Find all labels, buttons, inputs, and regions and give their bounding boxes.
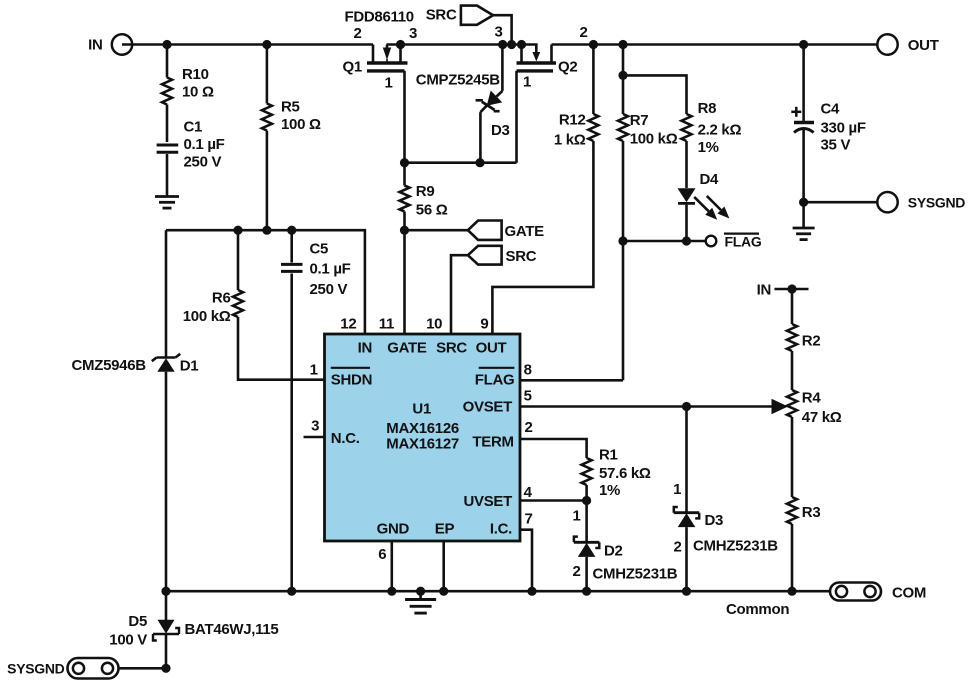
wire R7 to R8 [623, 75, 687, 114]
wire R10 to C1 [166, 105, 169, 143]
wire C1 to ground [166, 154, 169, 197]
svg-text:8: 8 [524, 362, 532, 379]
label C4 [821, 101, 866, 154]
resistor R1 [582, 458, 592, 485]
svg-text:6: 6 [378, 546, 386, 563]
wire IN stub [775, 288, 809, 291]
tag SRC mid [468, 246, 502, 265]
label D3 CMHZ5231B [693, 538, 778, 555]
label D3 pin 1 [673, 481, 681, 498]
svg-text:2: 2 [579, 24, 587, 41]
svg-text:D2: D2 [604, 543, 623, 560]
wire R6 top lead [237, 230, 240, 290]
wire C4 ground stem [802, 202, 805, 228]
resistor R3 [787, 497, 797, 524]
node junction dots bottom rail [161, 587, 796, 596]
label Common [726, 601, 789, 618]
diode D2 zener [574, 537, 599, 557]
node FLAG open circle [706, 236, 717, 247]
wire UVSET [520, 499, 587, 502]
node junction dot SYSGND [161, 664, 170, 673]
svg-text:330 µF: 330 µF [821, 120, 866, 137]
svg-text:D5: D5 [128, 613, 147, 630]
svg-text:C1: C1 [184, 119, 203, 136]
svg-text:R9: R9 [416, 183, 435, 200]
label U1 pin 6 [378, 546, 386, 563]
label U1 pin 8 [524, 362, 532, 379]
svg-text:CMPZ5245B: CMPZ5245B [416, 72, 500, 89]
label FLAG node [724, 234, 762, 250]
svg-text:R6: R6 [212, 290, 231, 307]
svg-text:2: 2 [572, 563, 580, 580]
svg-text:CMHZ5231B: CMHZ5231B [693, 538, 778, 555]
diode D1 zener [152, 354, 180, 372]
label C1 [184, 119, 225, 171]
svg-text:10 Ω: 10 Ω [182, 84, 214, 101]
wire GATE tag lead [405, 229, 468, 232]
node junction dot FLAG left [618, 236, 627, 245]
label R4 [802, 390, 842, 427]
label FDD86110 [345, 9, 414, 26]
svg-text:SHDN: SHDN [331, 372, 372, 389]
diode D5 schottky [153, 620, 179, 641]
label Q2 [558, 59, 577, 76]
svg-text:3: 3 [311, 418, 319, 435]
node junction dot R10 [162, 40, 171, 49]
label D2 [604, 543, 623, 560]
svg-text:2: 2 [524, 419, 532, 436]
resistor R12 [588, 114, 598, 141]
wire Q1 gate down [403, 71, 406, 163]
wire D5 bottom lead [165, 634, 168, 668]
svg-text:BAT46WJ,115: BAT46WJ,115 [185, 621, 279, 638]
label pin 3 Q2 [494, 24, 502, 41]
wire R7 top lead [622, 45, 625, 115]
svg-text:GATE: GATE [387, 340, 427, 357]
svg-text:2: 2 [353, 25, 361, 42]
label R1 [599, 447, 651, 500]
label U1 top pin names [358, 340, 507, 357]
label R12 [554, 112, 586, 149]
svg-text:D4: D4 [700, 171, 720, 188]
svg-text:0.1 µF: 0.1 µF [310, 261, 351, 278]
svg-text:11: 11 [379, 316, 394, 333]
wire Q2 gate down [515, 71, 518, 163]
wire D1 top lead [165, 230, 168, 357]
resistor R4 potentiometer [787, 390, 797, 417]
svg-text:IN: IN [358, 340, 372, 357]
label R6 [183, 290, 231, 326]
node junction dot D3 bottom [475, 158, 484, 167]
wire C4 to SYSGND [804, 201, 888, 204]
label D1 [180, 358, 199, 375]
node junction dot C4 top [799, 40, 808, 49]
tag SRC top [461, 6, 493, 25]
svg-text:FLAG: FLAG [725, 234, 762, 250]
wire R10 top lead [166, 45, 169, 78]
svg-text:1: 1 [523, 74, 531, 91]
wire D3 bottom lead [685, 527, 688, 591]
svg-text:CMZ5946B: CMZ5946B [72, 357, 147, 374]
resistor R8 [682, 114, 692, 141]
label U1 UVSET [463, 493, 512, 510]
node junction dots Q2 source [498, 40, 526, 49]
wire R4 wiper arrow [772, 399, 789, 415]
label U1 pin 5 [524, 388, 532, 405]
label C5 [310, 241, 351, 299]
wire D5 top lead [165, 591, 168, 620]
tag GATE [468, 221, 502, 240]
svg-text:SRC: SRC [436, 340, 467, 357]
wire U1 GND pin 6 [390, 541, 393, 591]
label R8 [698, 100, 742, 156]
ground bottom [405, 600, 436, 614]
resistor R9 [400, 186, 410, 212]
label IN right [757, 282, 771, 299]
svg-text:D3: D3 [491, 122, 510, 139]
wire SYSGND connector lead [119, 667, 167, 670]
wire R5 top lead [266, 45, 269, 104]
svg-text:0.1 µF: 0.1 µF [184, 136, 225, 153]
svg-text:Q1: Q1 [343, 59, 362, 76]
label R9 [416, 183, 448, 219]
svg-text:SYSGND: SYSGND [7, 661, 65, 677]
svg-text:R5: R5 [281, 99, 300, 116]
wire D3 top lead [685, 407, 688, 513]
label SRC top [426, 7, 457, 24]
svg-text:SRC: SRC [426, 7, 457, 24]
svg-text:2.2 kΩ: 2.2 kΩ [698, 122, 742, 139]
resistor R10 [162, 78, 172, 105]
node junction dot IN stub [787, 284, 796, 293]
svg-text:100 V: 100 V [109, 632, 147, 649]
label D2 pin 1 [572, 508, 580, 525]
label U1 TERM [472, 434, 513, 451]
svg-text:COM: COM [892, 585, 926, 602]
label U1 name [386, 401, 459, 453]
svg-text:IN: IN [88, 37, 102, 54]
node junction dot gate bus left [400, 158, 409, 167]
svg-text:C4: C4 [821, 101, 841, 118]
svg-text:R1: R1 [599, 447, 618, 464]
wire R3 bottom lead [791, 524, 794, 591]
resistor R2 [787, 324, 797, 351]
node junction dot GATE [400, 226, 409, 235]
node junction dot R7 [618, 40, 627, 49]
svg-text:IN: IN [757, 282, 771, 299]
wire C4 top lead [802, 45, 805, 121]
svg-text:35 V: 35 V [821, 137, 851, 154]
label COM [892, 585, 926, 602]
svg-text:57.6 kΩ: 57.6 kΩ [599, 465, 651, 482]
svg-text:MAX16126: MAX16126 [386, 420, 459, 437]
wire SRC tag to rail [493, 15, 512, 44]
svg-text:SYSGND: SYSGND [908, 195, 966, 211]
wire top rail Q2 drain to OUT [552, 43, 888, 46]
wire bottom rail [166, 590, 830, 593]
label U1 pin 2 [524, 419, 532, 436]
svg-text:250 V: 250 V [184, 154, 222, 171]
svg-text:GND: GND [377, 521, 410, 538]
label CMPZ5245B [416, 72, 500, 89]
label D3 top [491, 122, 510, 139]
svg-text:100 kΩ: 100 kΩ [630, 131, 678, 148]
node junction dot C5 top [287, 226, 296, 235]
svg-text:OUT: OUT [476, 340, 507, 357]
connector COM [830, 583, 881, 601]
wire R2 to R4 [791, 351, 794, 390]
svg-text:U1: U1 [412, 401, 431, 418]
diode D3 zener [476, 45, 503, 163]
wire top rail Q1 source to Q2 source [387, 43, 538, 46]
svg-text:FLAG: FLAG [475, 372, 515, 389]
label BAT46WJ115 [185, 621, 279, 638]
node junction dot R5 [262, 40, 271, 49]
svg-text:1%: 1% [698, 139, 719, 156]
svg-text:56 Ω: 56 Ω [416, 202, 448, 219]
wire R4 to R3 [791, 417, 794, 497]
svg-text:R12: R12 [559, 112, 586, 129]
wire R6 to SHDN [238, 317, 325, 380]
wire TERM to R1 [520, 439, 587, 458]
label U1 pin 1 [310, 362, 318, 379]
label C4 plus [791, 107, 801, 117]
svg-text:3: 3 [494, 24, 502, 41]
node junction dot Q1 source [396, 40, 405, 49]
label D4 [700, 171, 720, 188]
wire R1 bottom lead [585, 485, 588, 501]
label R10 [182, 66, 214, 101]
node junction dot R5 bottom [262, 226, 271, 235]
wire R12 to pin 9 [492, 141, 593, 334]
svg-text:OVSET: OVSET [463, 399, 512, 416]
label R2 [802, 333, 821, 350]
capacitor C5 [281, 264, 303, 271]
node junction dot D4 bottom [682, 236, 691, 245]
svg-text:7: 7 [524, 511, 532, 528]
op-amp U1 MAX16126 body [325, 334, 521, 541]
label Q1 pin 3 [409, 25, 417, 42]
wire R5 bottom lead [266, 131, 269, 231]
svg-text:100 Ω: 100 Ω [281, 116, 321, 133]
svg-text:2: 2 [673, 539, 681, 556]
label U1 GND EP IC [377, 521, 513, 538]
wire C5 top lead [290, 230, 293, 262]
wire R9 top lead [403, 163, 406, 186]
svg-text:SRC: SRC [506, 248, 537, 265]
resistor R6 [233, 290, 243, 317]
transistor Q2 [517, 45, 557, 71]
label Q2 pin 1 [523, 74, 531, 91]
wire R7 bottom lead [622, 141, 625, 380]
capacitor C1 [157, 145, 179, 152]
svg-text:OUT: OUT [908, 37, 939, 54]
svg-text:3: 3 [409, 25, 417, 42]
label D2 CMHZ5231B [593, 566, 678, 583]
svg-text:C5: C5 [310, 241, 329, 258]
label Q2 pin 2 [579, 24, 587, 41]
label D5 [109, 613, 147, 649]
wire top rail IN to Q1 drain [122, 43, 373, 46]
label U1 SHDN [331, 368, 372, 389]
wire ground stem bottom [419, 591, 422, 599]
svg-text:1: 1 [310, 362, 318, 379]
transistor Q1 [367, 45, 408, 71]
label R3 [802, 504, 821, 521]
wire C5 bottom lead [290, 274, 293, 592]
node junction dot R12 [589, 40, 598, 49]
wire U1 NC stub [304, 436, 325, 439]
node junction dot OVSET D3 [682, 402, 691, 411]
wire FLAG [623, 240, 706, 243]
svg-text:R4: R4 [802, 390, 822, 407]
svg-text:5: 5 [524, 388, 532, 405]
wire R9 bottom lead [403, 212, 406, 335]
wire D2 top lead [585, 501, 588, 543]
wire IC pin 7 [520, 530, 532, 592]
node junction dot C4 bottom [799, 198, 808, 207]
svg-text:9: 9 [480, 316, 488, 333]
wire D1 bottom lead [165, 372, 168, 591]
node junction dot R7 R8 tee [618, 71, 627, 80]
wire R2 top lead [791, 289, 794, 324]
svg-text:R2: R2 [802, 333, 821, 350]
svg-text:1%: 1% [599, 482, 620, 499]
wire shdn bus [166, 230, 365, 334]
label U1 pin 3 [311, 418, 319, 435]
svg-text:47 kΩ: 47 kΩ [802, 409, 842, 426]
svg-text:12: 12 [340, 316, 356, 333]
svg-text:Common: Common [726, 601, 789, 618]
svg-text:N.C.: N.C. [331, 430, 360, 447]
connector SYSGND [68, 658, 119, 679]
svg-text:1: 1 [572, 508, 580, 525]
node junction dot R1 UVSET [582, 496, 591, 505]
wire U1 EP [442, 541, 445, 591]
resistor R5 [262, 104, 272, 131]
label U1 pin numbers top [340, 316, 488, 333]
svg-text:1 kΩ: 1 kΩ [554, 132, 586, 149]
svg-text:UVSET: UVSET [463, 493, 512, 510]
wire D2 bottom lead [585, 557, 588, 591]
svg-text:1: 1 [384, 75, 392, 92]
wire SRC tag to pin 10 [451, 255, 468, 334]
label R7 [630, 112, 678, 148]
label U1 FLAG [475, 368, 515, 389]
node SYSGND right terminal [877, 192, 965, 212]
svg-text:FDD86110: FDD86110 [345, 9, 414, 26]
wire R8 to D4 [685, 141, 688, 188]
svg-text:R8: R8 [698, 100, 717, 117]
svg-text:R7: R7 [630, 112, 649, 129]
svg-text:10: 10 [426, 316, 442, 333]
svg-text:D3: D3 [705, 512, 724, 529]
svg-text:I.C.: I.C. [490, 521, 512, 538]
label Q1 pin 2 [353, 25, 361, 42]
label Q1 [343, 59, 362, 76]
diode D4 LED [678, 188, 730, 241]
label CMZ5946B [72, 357, 147, 374]
wire gate bus [405, 161, 517, 164]
wire R12 top lead [592, 45, 595, 115]
svg-text:1: 1 [673, 481, 681, 498]
svg-text:R3: R3 [802, 504, 821, 521]
svg-text:4: 4 [524, 484, 533, 501]
label SYSGND left [7, 661, 65, 677]
ground C4 [793, 228, 815, 240]
svg-text:EP: EP [435, 521, 455, 538]
resistor R7 [618, 114, 628, 141]
label R5 [281, 99, 321, 134]
svg-text:GATE: GATE [505, 223, 545, 240]
svg-text:D1: D1 [180, 358, 199, 375]
label Q1 pin 1 [384, 75, 392, 92]
svg-text:100 kΩ: 100 kΩ [183, 308, 231, 325]
label D3 pin 2 [673, 539, 681, 556]
svg-text:CMHZ5231B: CMHZ5231B [593, 566, 678, 583]
svg-text:MAX16127: MAX16127 [386, 436, 459, 453]
label U1 pin 7 [524, 511, 532, 528]
label GATE tag [505, 223, 545, 240]
svg-text:TERM: TERM [472, 434, 513, 451]
label U1 OVSET [463, 399, 512, 416]
label D3 bottom [705, 512, 724, 529]
label D2 pin 2 [572, 563, 580, 580]
node OUT terminal [877, 34, 938, 54]
label U1 pin 4 [524, 484, 533, 501]
node junction dot R6 top [233, 226, 242, 235]
diode D3 zener bottom [674, 507, 699, 527]
label U1 NC [331, 430, 360, 447]
wire OVSET to R4 [520, 405, 773, 408]
svg-text:Q2: Q2 [558, 59, 577, 76]
svg-text:R10: R10 [182, 66, 209, 83]
wire U1 FLAG pin 8 [520, 379, 623, 382]
capacitor C4 [794, 123, 814, 203]
label SRC mid [506, 248, 537, 265]
ground C1 [155, 197, 179, 209]
node IN terminal [88, 34, 132, 54]
svg-text:250 V: 250 V [310, 281, 348, 298]
